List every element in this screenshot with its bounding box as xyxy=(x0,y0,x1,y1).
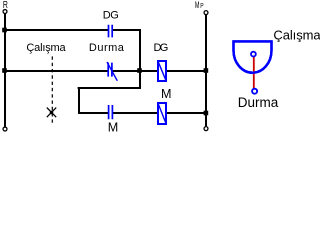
svg-text:DG: DG xyxy=(154,42,169,54)
svg-text:DG: DG xyxy=(103,10,119,22)
svg-text:Durma: Durma xyxy=(89,42,125,54)
svg-text:P: P xyxy=(200,1,204,10)
svg-text:Çalışma: Çalışma xyxy=(273,27,320,42)
svg-text:M: M xyxy=(108,121,119,135)
svg-text:M: M xyxy=(161,87,172,101)
svg-text:Çalışma: Çalışma xyxy=(26,42,66,54)
svg-text:M: M xyxy=(195,0,200,11)
svg-text:R: R xyxy=(3,0,8,11)
svg-text:Durma: Durma xyxy=(238,95,279,110)
